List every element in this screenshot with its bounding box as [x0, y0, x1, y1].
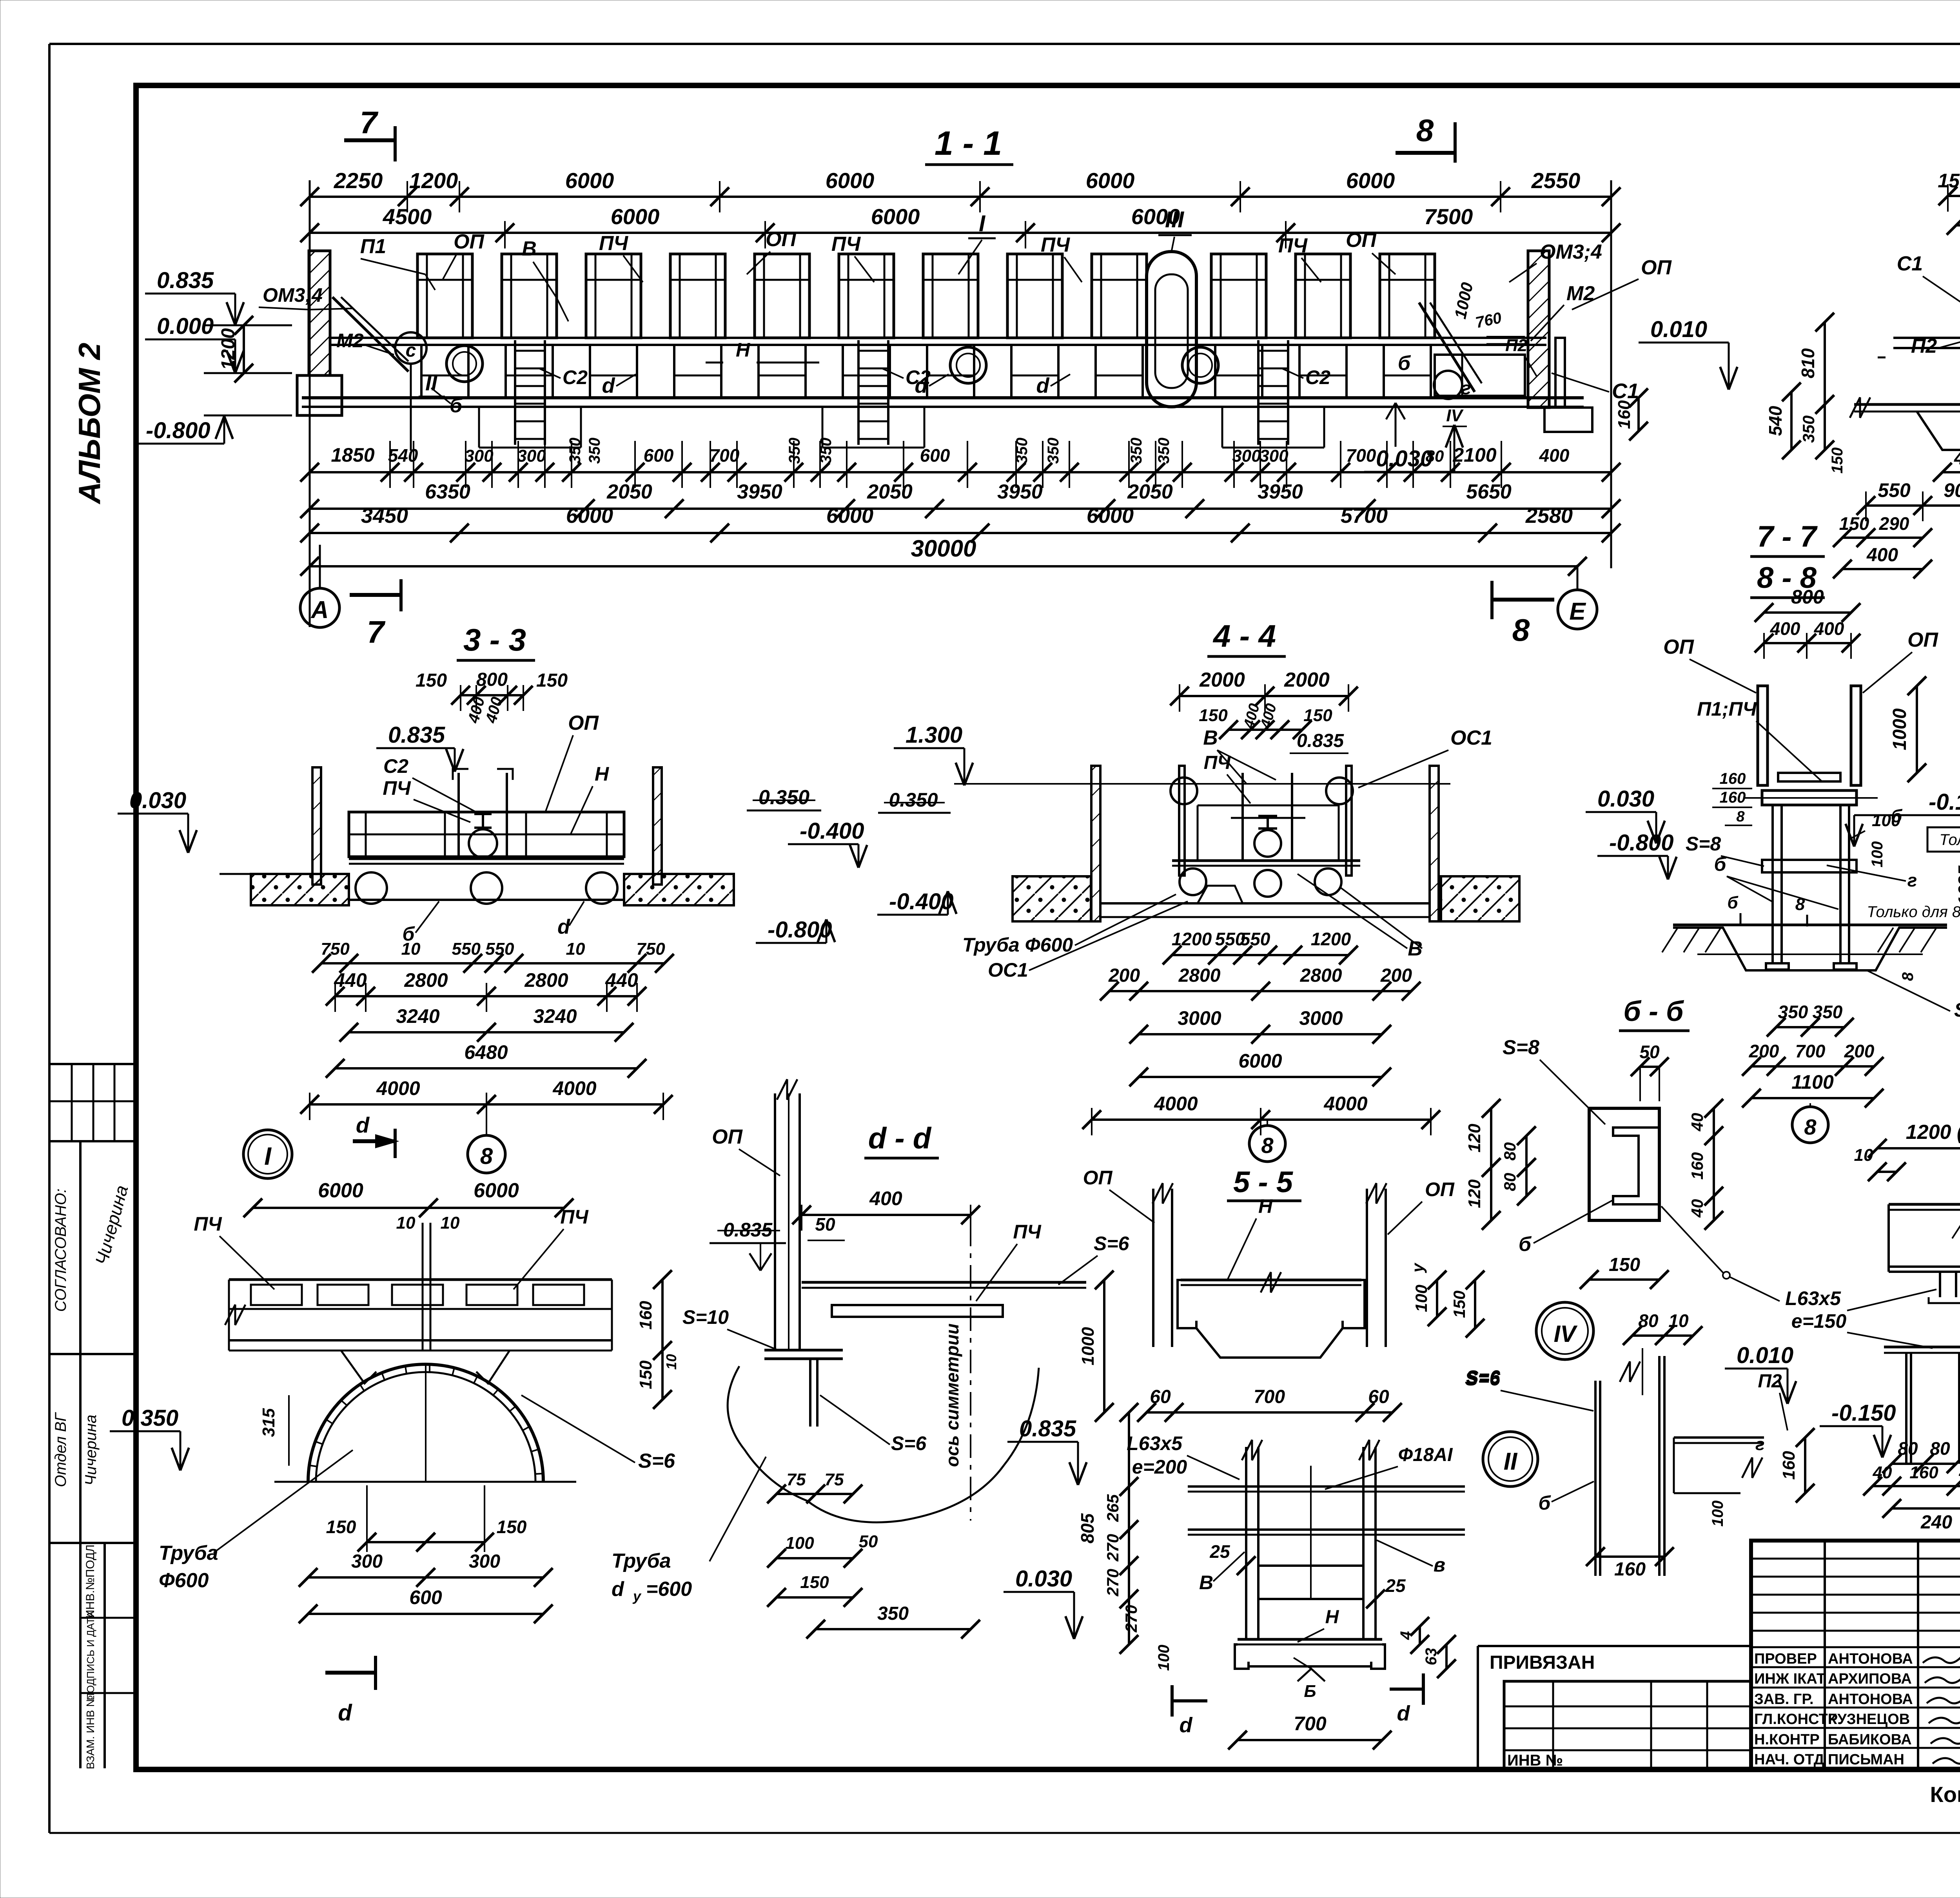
svg-text:В: В — [522, 237, 537, 260]
svg-text:10: 10 — [663, 1354, 679, 1370]
svg-text:10: 10 — [441, 1213, 460, 1233]
svg-text:г: г — [1755, 1435, 1764, 1454]
7-7 dims below — [1776, 1026, 1844, 1028]
svg-text:d: d — [915, 374, 928, 397]
svg-text:100: 100 — [1155, 1645, 1172, 1671]
svg-text:В: В — [1203, 727, 1218, 749]
plan slab band with boxes — [229, 1278, 612, 1281]
7-7 platform — [1778, 773, 1840, 781]
svg-text:ОМ3;4: ОМ3;4 — [1540, 241, 1602, 263]
svg-text:S=8: S=8 — [1686, 833, 1721, 855]
dim 1200 1800 — [1877, 1147, 1960, 1149]
svg-text:S=6: S=6 — [1094, 1233, 1130, 1254]
filter box at 3520 — [1380, 254, 1435, 338]
svg-text:5650: 5650 — [1466, 480, 1512, 503]
svg-text:IV: IV — [1554, 1321, 1578, 1347]
4-4 posts — [1179, 766, 1185, 876]
svg-text:ОП: ОП — [568, 712, 599, 734]
svg-text:150: 150 — [1829, 448, 1846, 474]
svg-text:L63x5: L63x5 — [1785, 1287, 1841, 1309]
svg-text:1850: 1850 — [331, 444, 374, 466]
svg-text:270: 270 — [1122, 1605, 1140, 1633]
pipe circles — [446, 346, 483, 382]
svg-text:ИНЖ IКАТ: ИНЖ IКАТ — [1754, 1671, 1826, 1687]
svg-text:300: 300 — [1259, 446, 1289, 466]
svg-text:350: 350 — [1778, 1002, 1808, 1022]
d-d excavation cloud — [728, 1366, 1039, 1522]
extension verticals — [309, 180, 311, 627]
dim row 4500-6000x3-7500 — [310, 232, 1611, 234]
svg-text:ПОДПИСЬ И ДАТА: ПОДПИСЬ И ДАТА — [85, 1611, 96, 1700]
svg-text:НАЧ. ОТД: НАЧ. ОТД — [1754, 1751, 1824, 1768]
svg-text:ОП: ОП — [454, 230, 485, 253]
svg-text:II: II — [1504, 1448, 1518, 1475]
ladder at 1352 — [514, 340, 516, 445]
axis circle A — [300, 588, 339, 627]
svg-text:СОГЛАСОВАНО:: СОГЛАСОВАНО: — [52, 1189, 69, 1312]
svg-text:Е: Е — [1569, 598, 1586, 625]
svg-text:ОМ3;4: ОМ3;4 — [263, 284, 323, 306]
svg-text:4500: 4500 — [383, 204, 432, 229]
filter box at 2355 — [923, 254, 978, 338]
svg-text:1000: 1000 — [1889, 708, 1910, 750]
7-7 mid tie — [1762, 860, 1857, 872]
5-5 right small dims — [1419, 1626, 1421, 1644]
svg-text:8: 8 — [1899, 972, 1916, 981]
svg-text:П1: П1 — [360, 235, 386, 258]
P2 beam section small — [1674, 1436, 1764, 1439]
svg-text:800: 800 — [1791, 586, 1824, 608]
svg-text:8: 8 — [1416, 113, 1434, 148]
3-3 structure band — [349, 812, 624, 857]
d-d lower stub — [809, 1359, 811, 1427]
svg-text:6000: 6000 — [1346, 168, 1395, 193]
svg-text:150: 150 — [636, 1360, 655, 1389]
capsule vessel III — [1147, 252, 1196, 407]
svg-text:750: 750 — [321, 939, 350, 959]
svg-text:1.300: 1.300 — [906, 722, 962, 748]
plan right rotated dims — [661, 1280, 664, 1399]
floor slab lines — [302, 396, 1584, 399]
b-b leader to IV node — [1661, 1206, 1724, 1273]
svg-text:10: 10 — [396, 1213, 416, 1233]
svg-text:I: I — [979, 211, 986, 236]
svg-text:6480: 6480 — [464, 1041, 508, 1063]
5-5 beam — [1181, 1279, 1361, 1282]
filter box at 2785 — [1092, 254, 1147, 338]
svg-text:ИНВ.№ПОДЛ: ИНВ.№ПОДЛ — [84, 1545, 97, 1618]
svg-text:7500: 7500 — [1424, 204, 1473, 229]
svg-text:ОС1: ОС1 — [1450, 727, 1492, 749]
svg-text:2050: 2050 — [867, 480, 913, 503]
axis circle 8 below 4-4 — [1249, 1126, 1285, 1162]
svg-text:e=200: e=200 — [1132, 1456, 1187, 1478]
svg-text:3950: 3950 — [1258, 480, 1303, 503]
section cut mark 7 bottom — [350, 593, 401, 597]
svg-text:700: 700 — [1294, 1713, 1327, 1735]
svg-text:100: 100 — [1412, 1285, 1430, 1312]
filter box at 1495 — [586, 254, 641, 338]
svg-text:1200: 1200 — [1172, 929, 1212, 949]
svg-text:ОП: ОП — [712, 1126, 743, 1148]
below-structure small dims row — [310, 471, 1611, 473]
left margin stamp table — [49, 1063, 136, 1065]
3-3 side walls — [312, 767, 321, 885]
title block small rows left — [1751, 1558, 1960, 1560]
svg-text:160: 160 — [1615, 400, 1634, 429]
5-5 end channels — [1178, 1280, 1196, 1328]
svg-text:0.350: 0.350 — [759, 786, 809, 809]
svg-text:150: 150 — [1938, 170, 1960, 192]
node II circle bottom — [1483, 1432, 1538, 1486]
svg-text:600: 600 — [644, 445, 674, 466]
svg-text:ОП: ОП — [1641, 256, 1672, 279]
7-7 drawing dims top — [1764, 611, 1851, 614]
svg-text:30000: 30000 — [911, 535, 976, 562]
svg-text:1200: 1200 — [218, 328, 239, 370]
2-2 left rotated dims — [1824, 322, 1826, 450]
svg-text:0.010: 0.010 — [1737, 1343, 1793, 1368]
svg-text:А: А — [310, 596, 329, 624]
svg-text:ПРОВЕР: ПРОВЕР — [1754, 1651, 1817, 1667]
filter box at 3090 — [1211, 254, 1266, 338]
svg-text:d: d — [612, 1578, 624, 1601]
svg-text:С2: С2 — [563, 366, 588, 388]
dim row 2250-1200-6000x4-2550 — [310, 196, 1611, 198]
node IV circle — [1536, 1302, 1593, 1360]
svg-text:d: d — [557, 915, 570, 938]
svg-text:540: 540 — [1765, 406, 1786, 436]
5-5 pan trapezoid — [1196, 1328, 1343, 1358]
svg-text:в: в — [1434, 1554, 1445, 1576]
svg-text:S=8: S=8 — [1954, 999, 1960, 1021]
svg-text:100: 100 — [785, 1534, 814, 1553]
svg-text:350: 350 — [1155, 438, 1172, 464]
3-3 dim rows below — [321, 962, 664, 964]
ladder at 3248 — [1257, 340, 1259, 445]
left wall hatched — [309, 251, 330, 375]
svg-text:ПЧ: ПЧ — [1278, 234, 1308, 257]
node IV bottom dims — [1892, 1463, 1956, 1465]
svg-text:Н: Н — [1325, 1607, 1339, 1628]
svg-text:АЛЬБОМ 2: АЛЬБОМ 2 — [72, 343, 107, 505]
svg-text:80: 80 — [1501, 1142, 1519, 1161]
svg-text:ОП: ОП — [1083, 1167, 1113, 1189]
svg-text:0.835: 0.835 — [1297, 731, 1344, 751]
svg-text:ОС1: ОС1 — [988, 959, 1028, 981]
beam bottom stub — [1939, 1272, 1941, 1297]
svg-text:ПЧ: ПЧ — [1204, 752, 1231, 773]
svg-text:120: 120 — [1465, 1124, 1484, 1153]
svg-text:160: 160 — [1688, 1152, 1706, 1180]
plan semicircle pipe — [308, 1364, 543, 1482]
filter box at 1710 — [670, 254, 725, 338]
svg-text:100: 100 — [1709, 1501, 1726, 1527]
svg-text:6000: 6000 — [871, 204, 920, 229]
svg-text:0.010: 0.010 — [1650, 317, 1707, 342]
svg-text:2000: 2000 — [1199, 669, 1245, 691]
svg-text:-0.800: -0.800 — [146, 418, 210, 443]
svg-text:750: 750 — [636, 939, 665, 959]
svg-text:80: 80 — [1638, 1311, 1659, 1331]
d-d base plate — [764, 1349, 843, 1352]
svg-text:Н.КОНТР: Н.КОНТР — [1754, 1731, 1820, 1748]
plan dims below — [367, 1541, 426, 1543]
d cut mark right of I — [353, 1139, 395, 1143]
b-b dims right — [1713, 1108, 1715, 1220]
svg-text:0.835: 0.835 — [388, 722, 445, 748]
svg-text:160: 160 — [1779, 1451, 1798, 1480]
5-5 left rotated dim chain — [1103, 1280, 1105, 1412]
5-5 ladder — [1245, 1447, 1247, 1639]
svg-text:6000: 6000 — [474, 1179, 519, 1202]
svg-text:ВЗАМ. ИНВ №: ВЗАМ. ИНВ № — [84, 1695, 96, 1769]
b-b channel C profile — [1613, 1128, 1659, 1204]
svg-text:7: 7 — [360, 105, 379, 140]
svg-text:0.030: 0.030 — [1015, 1566, 1072, 1592]
4-4 circles top row — [1171, 778, 1197, 804]
svg-text:2800: 2800 — [404, 969, 448, 991]
svg-text:ОП: ОП — [1907, 629, 1938, 651]
svg-text:С2: С2 — [383, 755, 408, 777]
4-4 dims top — [1180, 695, 1348, 697]
svg-text:315: 315 — [259, 1408, 278, 1437]
right end platform M2 — [1419, 303, 1475, 392]
svg-text:М2: М2 — [336, 330, 364, 352]
svg-text:400: 400 — [1866, 545, 1898, 566]
svg-text:160: 160 — [1909, 1463, 1938, 1482]
svg-text:Н: Н — [736, 339, 750, 361]
svg-text:4000: 4000 — [1154, 1093, 1198, 1115]
node circle I — [243, 1130, 292, 1178]
svg-text:ОП: ОП — [766, 228, 797, 251]
svg-text:5700: 5700 — [1341, 504, 1388, 528]
svg-text:ПЧ: ПЧ — [383, 777, 411, 799]
5-5 base channel — [1238, 1638, 1382, 1641]
svg-text:S=6: S=6 — [1466, 1367, 1500, 1388]
svg-text:2550: 2550 — [1531, 168, 1581, 193]
svg-text:III: III — [1165, 207, 1185, 232]
4-4 dim rows below — [1172, 954, 1348, 956]
svg-text:Н: Н — [595, 763, 609, 785]
7-7 posts — [1758, 686, 1768, 785]
d-d dim 400 — [802, 1214, 971, 1216]
node IV bottom dim 160 — [1595, 1555, 1664, 1558]
svg-text:150: 150 — [1303, 706, 1332, 725]
svg-text:2580: 2580 — [1525, 504, 1573, 528]
svg-text:-0.400: -0.400 — [800, 818, 864, 844]
filter box at 2570 — [1007, 254, 1062, 338]
svg-text:700: 700 — [1346, 445, 1376, 466]
b-b dims left — [1490, 1108, 1492, 1220]
svg-text:I: I — [264, 1142, 272, 1170]
svg-text:63: 63 — [1423, 1648, 1440, 1666]
svg-text:550: 550 — [1878, 479, 1911, 501]
svg-text:ПЧ: ПЧ — [194, 1213, 222, 1235]
section cut mark 7 top — [344, 138, 395, 142]
7-7 only-for boxes — [1927, 827, 1960, 852]
svg-text:П2: П2 — [1505, 336, 1528, 355]
svg-text:S=10: S=10 — [682, 1306, 729, 1328]
svg-text:2250: 2250 — [334, 168, 383, 193]
svg-text:290: 290 — [1879, 513, 1909, 534]
svg-text:ПИСЬМАН: ПИСЬМАН — [1828, 1751, 1904, 1768]
svg-text:50: 50 — [1639, 1042, 1660, 1062]
svg-text:С1: С1 — [1612, 379, 1639, 403]
svg-text:ПРИВЯЗАН: ПРИВЯЗАН — [1490, 1652, 1595, 1673]
svg-text:=600: =600 — [646, 1578, 692, 1601]
svg-text:8: 8 — [480, 1144, 493, 1169]
b-b dim 50 top — [1640, 1066, 1659, 1068]
svg-text:Труба: Труба — [612, 1550, 671, 1572]
4-4 center shaft — [1241, 773, 1244, 861]
svg-text:3950: 3950 — [737, 480, 782, 503]
svg-text:600: 600 — [920, 445, 950, 466]
svg-text:75: 75 — [787, 1470, 806, 1489]
svg-text:Ф600: Ф600 — [159, 1569, 209, 1592]
svg-text:S=6: S=6 — [891, 1432, 927, 1454]
svg-text:5 - 5: 5 - 5 — [1233, 1166, 1294, 1199]
svg-text:800: 800 — [476, 669, 508, 690]
filter box at 1065 — [417, 254, 472, 338]
svg-text:50: 50 — [859, 1532, 878, 1551]
svg-text:6350: 6350 — [425, 480, 470, 503]
svg-text:1200: 1200 — [1311, 929, 1351, 949]
svg-text:150: 150 — [416, 670, 447, 691]
b-b channel box — [1589, 1108, 1659, 1220]
axis circle E — [1558, 590, 1597, 629]
svg-text:150: 150 — [1450, 1291, 1468, 1318]
svg-text:d: d — [356, 1113, 370, 1137]
svg-text:Только для 8-8: Только для 8-8 — [1939, 831, 1960, 848]
svg-text:6000: 6000 — [1086, 168, 1135, 193]
3-3 pipes circles — [356, 872, 387, 904]
svg-text:7 - 7: 7 - 7 — [1757, 520, 1818, 553]
plan center split lines — [422, 1223, 424, 1351]
svg-text:С1: С1 — [1897, 252, 1923, 275]
svg-text:270: 270 — [1103, 1534, 1122, 1562]
svg-text:б: б — [1727, 893, 1739, 912]
svg-text:350: 350 — [1128, 438, 1145, 464]
svg-text:1100: 1100 — [1791, 1071, 1834, 1093]
svg-text:350: 350 — [817, 438, 835, 464]
svg-text:1200: 1200 — [409, 168, 458, 193]
svg-text:4000: 4000 — [376, 1077, 420, 1099]
svg-text:3 - 3: 3 - 3 — [463, 622, 526, 657]
svg-text:200: 200 — [1380, 965, 1412, 986]
svg-text:40: 40 — [1688, 1113, 1706, 1132]
svg-text:10: 10 — [566, 939, 585, 959]
svg-text:300: 300 — [465, 446, 494, 466]
svg-text:П2: П2 — [1758, 1371, 1782, 1392]
svg-text:г: г — [1461, 378, 1471, 398]
svg-text:2050: 2050 — [606, 480, 652, 503]
svg-text:-0.800: -0.800 — [1609, 830, 1673, 856]
svg-text:0.350: 0.350 — [889, 789, 938, 811]
svg-text:Только для 8-8: Только для 8-8 — [1867, 903, 1960, 921]
svg-text:1000: 1000 — [1078, 1327, 1098, 1365]
svg-text:3240: 3240 — [533, 1005, 577, 1027]
svg-text:ось симметрии: ось симметрии — [942, 1323, 962, 1467]
svg-text:г: г — [1907, 870, 1917, 890]
svg-text:540: 540 — [388, 445, 418, 466]
4-4 floor hatched bands — [1013, 876, 1091, 921]
svg-text:ОП: ОП — [1425, 1178, 1455, 1200]
svg-text:80: 80 — [1426, 447, 1444, 465]
svg-text:8: 8 — [1795, 895, 1805, 914]
svg-text:d: d — [1397, 1702, 1410, 1725]
2-2 dims below — [1942, 471, 1960, 473]
filter box at 3305 — [1296, 254, 1350, 338]
svg-text:2800: 2800 — [1300, 965, 1342, 986]
svg-text:3000: 3000 — [1178, 1007, 1221, 1029]
svg-text:700: 700 — [1254, 1387, 1285, 1407]
svg-text:160: 160 — [1614, 1559, 1646, 1580]
svg-text:0.030: 0.030 — [1597, 786, 1654, 812]
svg-text:2100: 2100 — [1452, 444, 1496, 466]
svg-text:8: 8 — [1261, 1133, 1274, 1158]
svg-text:160: 160 — [636, 1301, 655, 1330]
svg-text:10: 10 — [1854, 1146, 1873, 1165]
svg-text:8: 8 — [1736, 809, 1745, 825]
svg-text:50: 50 — [815, 1214, 835, 1235]
svg-text:6000: 6000 — [1238, 1050, 1282, 1072]
filter box at 1280 — [502, 254, 557, 338]
axis circle 8 below 3-3 — [468, 1135, 505, 1173]
filter box at 1925 — [755, 254, 809, 338]
svg-text:0.835: 0.835 — [157, 268, 214, 293]
svg-text:б: б — [1539, 1492, 1552, 1514]
svg-text:1635: 1635 — [1955, 865, 1960, 906]
svg-text:0.030: 0.030 — [1376, 446, 1433, 471]
svg-text:350: 350 — [1013, 438, 1031, 464]
rail lines — [331, 337, 1546, 339]
svg-text:Б: Б — [1304, 1682, 1316, 1701]
5-5 posts — [1152, 1189, 1154, 1347]
svg-text:10: 10 — [401, 939, 421, 959]
svg-text:у: у — [1408, 1262, 1427, 1273]
svg-text:40: 40 — [1873, 1463, 1892, 1482]
svg-text:S=8: S=8 — [1503, 1036, 1539, 1059]
svg-text:с: с — [406, 340, 416, 361]
7-7 floor hatched with pit — [1673, 924, 1947, 926]
svg-text:810: 810 — [1798, 348, 1818, 378]
svg-text:240: 240 — [1920, 1512, 1952, 1533]
svg-text:160: 160 — [1720, 770, 1746, 787]
svg-text:II: II — [425, 372, 437, 395]
svg-text:4: 4 — [1397, 1631, 1415, 1640]
svg-text:Отдел ВГ: Отдел ВГ — [52, 1412, 69, 1487]
svg-text:IV: IV — [1446, 406, 1464, 425]
dim row B 6350 2050 3950 ... — [310, 508, 1611, 510]
svg-text:2000: 2000 — [1284, 669, 1330, 691]
b-b dim 150 bottom — [1589, 1278, 1659, 1281]
svg-text:400: 400 — [1954, 448, 1960, 469]
svg-text:440: 440 — [334, 969, 367, 991]
svg-text:8: 8 — [1512, 613, 1530, 647]
svg-text:300: 300 — [517, 446, 546, 466]
plan d cut mark bottom — [325, 1671, 376, 1675]
svg-text:40: 40 — [1959, 1463, 1960, 1482]
svg-text:700: 700 — [710, 445, 740, 466]
svg-text:160: 160 — [1720, 789, 1746, 806]
7-7 dim 1000 rotated — [1916, 686, 1918, 773]
svg-text:3450: 3450 — [361, 504, 408, 528]
svg-text:Копировал: Коршунова: Копировал: Коршунова — [1930, 1782, 1960, 1807]
7-7 legs — [1771, 805, 1774, 963]
4-4 pit trapezoid — [1198, 886, 1243, 903]
svg-text:150: 150 — [1609, 1254, 1640, 1275]
